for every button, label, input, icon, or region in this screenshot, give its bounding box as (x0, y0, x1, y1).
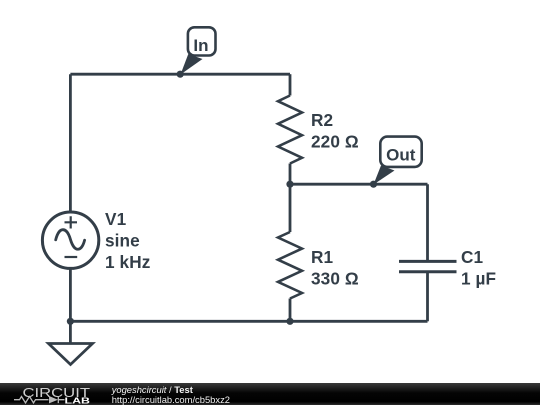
resistor R1 (278, 232, 302, 299)
wire bottom horizontal ground net (70, 320, 427, 323)
logo diode (49, 396, 58, 403)
svg-text:LAB: LAB (65, 395, 91, 405)
node junction V1 bottom (67, 318, 74, 325)
svg-text:sine: sine (105, 231, 140, 251)
flag pointer Out (374, 166, 395, 185)
svg-text:In: In (193, 36, 208, 55)
svg-text:http://circuitlab.com/cb5bxz2: http://circuitlab.com/cb5bxz2 (112, 394, 230, 405)
wire R2 top lead (289, 74, 292, 95)
svg-text:1 µF: 1 µF (461, 269, 496, 289)
node dot In (177, 71, 184, 78)
svg-text:Out: Out (386, 145, 416, 164)
svg-text:R1: R1 (311, 247, 334, 267)
flag pointer In (181, 54, 203, 75)
resistor R2 (278, 96, 302, 164)
svg-text:V1: V1 (105, 209, 127, 229)
node junction R2/R1 (286, 181, 293, 188)
label R1 value (311, 247, 359, 289)
svg-text:330 Ω: 330 Ω (311, 269, 359, 289)
node junction R1 bottom (286, 318, 293, 325)
svg-text:R2: R2 (311, 110, 333, 130)
wire V1 bottom to ground net (69, 268, 72, 321)
svg-text:220 Ω: 220 Ω (311, 132, 359, 152)
wire R2 bottom lead (289, 164, 292, 185)
wire ground stem (69, 321, 72, 343)
wire R1 top lead (289, 184, 292, 232)
logo resistor zigzag (14, 397, 49, 403)
wire left vertical to V1 top (69, 74, 72, 212)
wire R1 bottom lead (289, 299, 292, 322)
flag box In (188, 27, 216, 55)
svg-text:1 kHz: 1 kHz (105, 252, 150, 272)
wire C1 bottom lead (426, 273, 429, 321)
ground (49, 344, 93, 365)
flag box Out (380, 137, 421, 167)
wire C1 top lead (426, 184, 429, 260)
svg-text:C1: C1 (461, 247, 484, 267)
label C1 value (461, 247, 496, 289)
wire mid horizontal Out net (290, 183, 428, 186)
voltage source V1 (42, 212, 98, 268)
node dot Out (370, 181, 377, 188)
capacitor C1 (399, 261, 457, 271)
wire top horizontal In net (70, 73, 290, 76)
label R2 value (311, 110, 359, 152)
label V1 value (105, 209, 150, 272)
